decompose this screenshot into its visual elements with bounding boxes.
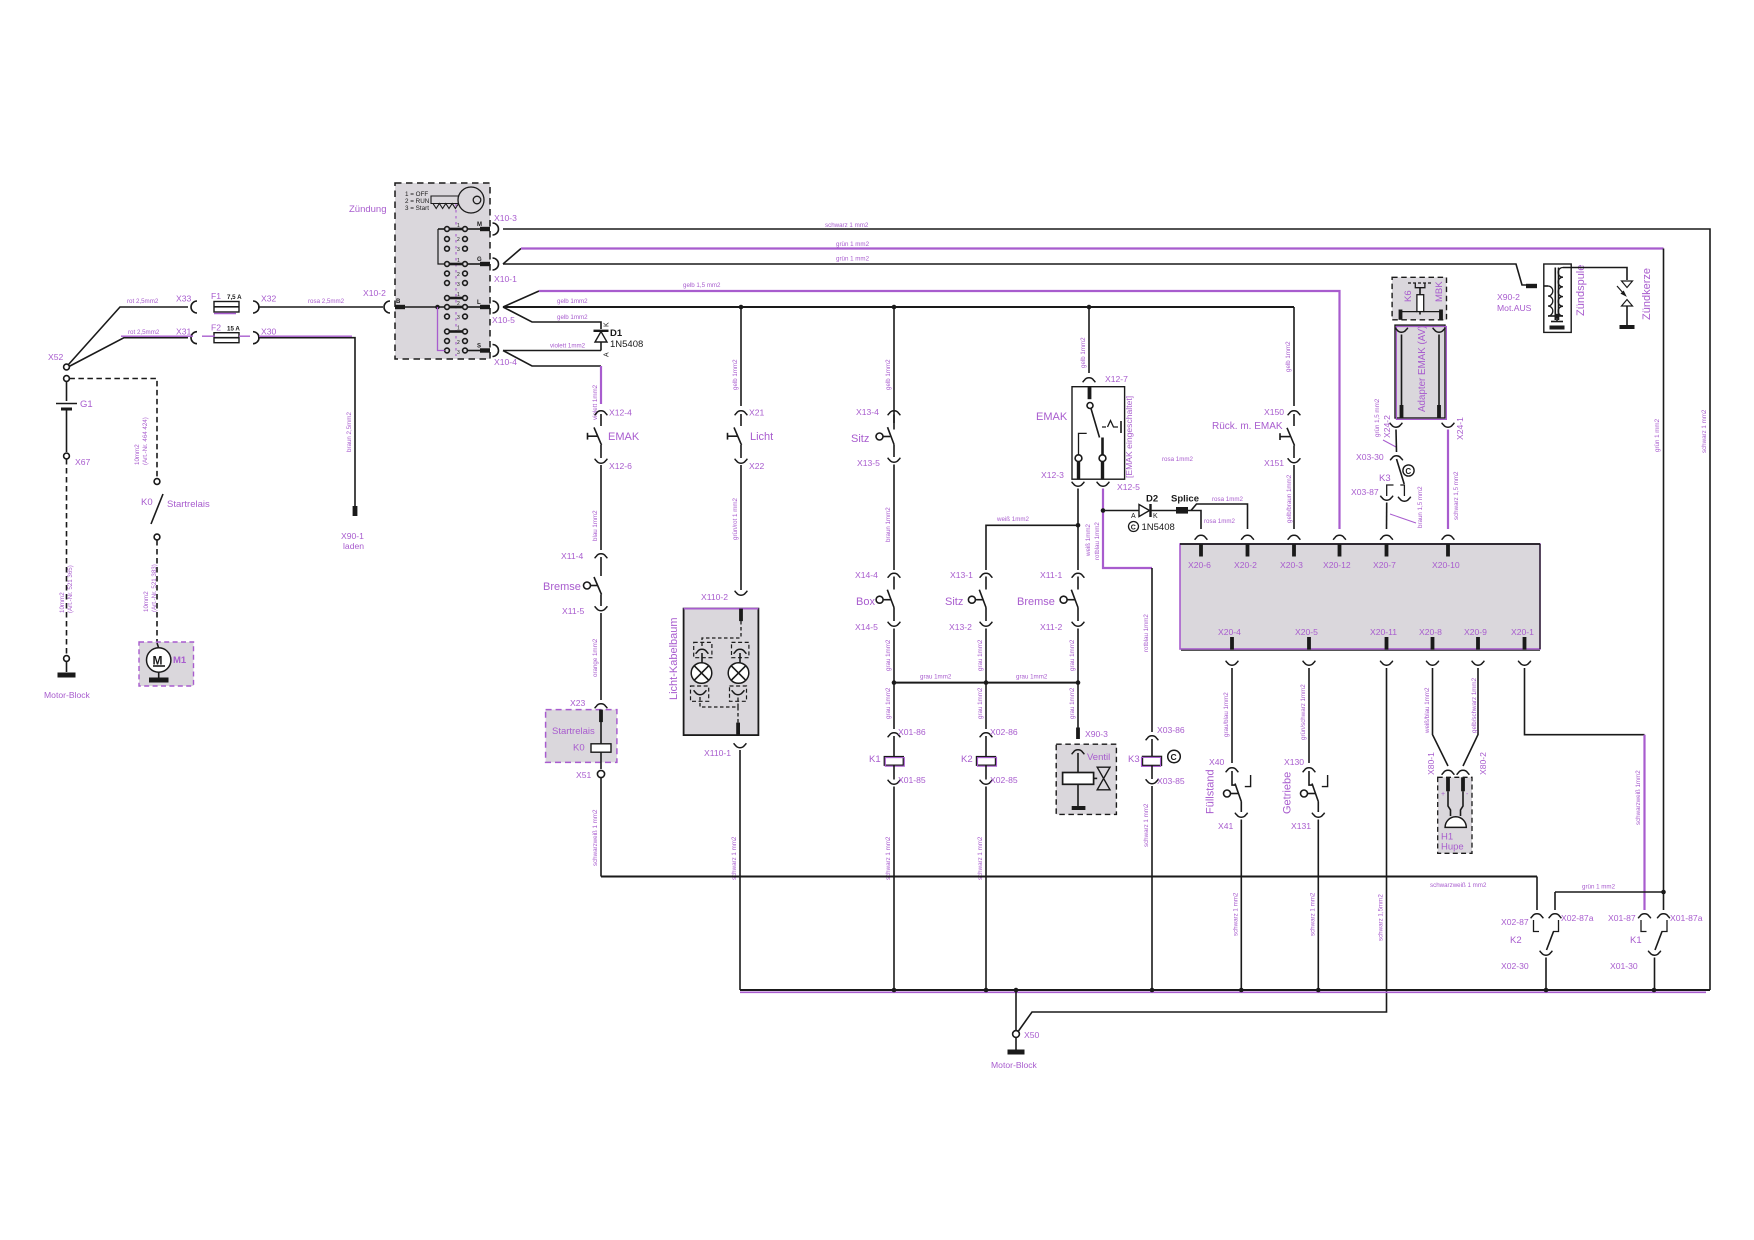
lamp box lower dashed wiring [700, 697, 740, 735]
connector X01-87a [1657, 913, 1703, 932]
wire gelb 1mm2 down to X13-4 [885, 307, 894, 423]
svg-text:Rück. m. EMAK: Rück. m. EMAK [1212, 421, 1283, 432]
svg-text:grün 1 mm2: grün 1 mm2 [1582, 884, 1616, 891]
svg-text:X40: X40 [1209, 757, 1225, 767]
wire rosa 1mm2 splice to X20-6 [1188, 511, 1236, 530]
svg-text:1: 1 [457, 258, 460, 264]
wire grau 1mm2 down [977, 629, 986, 683]
svg-text:X13-2: X13-2 [949, 622, 972, 632]
connector X13-1 [950, 570, 992, 580]
wire schwarzweiss bus down to X02-87 [1536, 877, 1538, 911]
wire braun 1,5 mm2 to X20-7 [1387, 486, 1425, 529]
svg-text:X13-4: X13-4 [856, 407, 879, 417]
connector X110-1 [704, 743, 746, 758]
svg-text:X12-7: X12-7 [1105, 374, 1128, 384]
svg-text:laden: laden [343, 541, 364, 551]
connector X10-4 [493, 345, 518, 368]
svg-text:braun 1mm2: braun 1mm2 [885, 507, 892, 542]
svg-text:rosa 1mm2: rosa 1mm2 [1212, 496, 1244, 503]
wire grau 1mm2 to X90-3 [1069, 683, 1078, 728]
svg-text:1N5408: 1N5408 [1142, 522, 1175, 533]
svg-text:MBK: MBK [1434, 281, 1445, 302]
wire rotblau 1mm2 down to X03-86 [1143, 568, 1152, 732]
connector X10-2 [363, 288, 390, 313]
lamp connector squares upper [694, 642, 749, 657]
connector X02-87a [1549, 913, 1594, 932]
svg-text:G1: G1 [80, 399, 93, 410]
connector X14-5 [855, 622, 900, 632]
svg-text:K0: K0 [573, 743, 585, 754]
svg-text:orange 1mm2: orange 1mm2 [592, 638, 599, 677]
connector X11-5 [562, 606, 607, 616]
svg-text:X24-2: X24-2 [1382, 415, 1392, 438]
switch Sitz (main) [945, 577, 986, 622]
wire gelb 1mm2 to D1 [503, 307, 601, 329]
svg-text:X31: X31 [176, 327, 192, 337]
horn H1 Hupe [1438, 777, 1472, 853]
connector X12-4 [595, 408, 632, 418]
svg-text:schwarz 1 mm2: schwarz 1 mm2 [1232, 892, 1239, 936]
wire schwarz 1,5 mm2 purple X24-1 to X20-10 [1448, 430, 1460, 530]
svg-text:EMAK: EMAK [608, 431, 640, 443]
svg-text:rotblau 1mm2: rotblau 1mm2 [1143, 614, 1150, 652]
svg-text:blau 1mm2: blau 1mm2 [592, 510, 599, 541]
wire schwarz 1 mm2 X131 to ground bus [1309, 820, 1318, 991]
svg-text:grau/blau 1mm2: grau/blau 1mm2 [1223, 692, 1230, 737]
svg-text:10mm2: 10mm2 [134, 444, 141, 465]
svg-text:K2: K2 [961, 754, 973, 765]
connector X20-8 [1419, 627, 1442, 665]
svg-text:X90-3: X90-3 [1085, 729, 1108, 739]
spark plug Zuendkerze [1617, 268, 1653, 329]
svg-text:gelb 1mm2: gelb 1mm2 [557, 314, 588, 321]
svg-text:X151: X151 [1264, 458, 1284, 468]
svg-text:K: K [604, 322, 611, 327]
connector X12-5 [1097, 482, 1140, 492]
svg-text:M1: M1 [173, 655, 187, 666]
connector X33 [176, 294, 197, 314]
node X52 [48, 352, 69, 381]
svg-text:X11-1: X11-1 [1040, 570, 1063, 580]
svg-text:Startrelais: Startrelais [167, 499, 210, 510]
connector X20-9 [1464, 627, 1487, 665]
connector X10-5 [492, 301, 515, 325]
wire schwarz 1 mm2 from X110-1 to ground bus [731, 750, 740, 990]
connector X110-2 [701, 591, 747, 602]
svg-text:weiß 1mm2: weiß 1mm2 [996, 516, 1030, 523]
wire schwarz 1 mm2 K1 to ground bus [885, 787, 894, 991]
svg-text:X10-4: X10-4 [494, 357, 517, 367]
svg-text:grau 1mm2: grau 1mm2 [920, 674, 952, 681]
svg-text:X130: X130 [1284, 757, 1304, 767]
svg-text:X32: X32 [261, 294, 277, 304]
svg-text:grün 1 mm2: grün 1 mm2 [1654, 418, 1661, 452]
connector X13-4 [856, 407, 900, 417]
svg-text:X20-9: X20-9 [1464, 627, 1487, 637]
svg-text:A: A [604, 352, 611, 357]
svg-text:rotblau 1mm2: rotblau 1mm2 [1094, 522, 1101, 560]
connector X11-1 [1040, 570, 1084, 580]
contact group L [445, 292, 468, 321]
connector X30 [253, 327, 277, 344]
connector X01-85 [888, 775, 926, 785]
svg-text:X10-3: X10-3 [494, 213, 517, 223]
svg-text:gelb 1mm2: gelb 1mm2 [557, 298, 588, 305]
svg-text:2: 2 [457, 301, 460, 307]
connector X20-12 [1323, 535, 1351, 570]
ground Motor-Block left [44, 656, 91, 700]
lamp E2 [728, 653, 749, 683]
ignition coil Zuendspule [1544, 264, 1587, 332]
wire gelbschwarz 1mm2 X20-9 to X80-2 [1463, 668, 1478, 766]
connector X12-7 [1083, 374, 1128, 384]
svg-text:rosa 1mm2: rosa 1mm2 [1204, 518, 1236, 525]
connector X150 [1264, 407, 1300, 417]
svg-text:Licht-Kabelbaum: Licht-Kabelbaum [668, 617, 680, 700]
svg-text:X03-87: X03-87 [1351, 487, 1379, 497]
svg-text:Mot.AUS: Mot.AUS [1497, 303, 1532, 313]
connector X10-3 [493, 213, 518, 235]
svg-text:Splice: Splice [1171, 494, 1199, 505]
wire gruen 1 mm2 purple (G bus) [503, 241, 1664, 264]
svg-text:[EMAK eingeschaltet]: [EMAK eingeschaltet] [1124, 396, 1134, 478]
connector X22 [735, 459, 765, 471]
wire coil secondary to spark plug [1563, 268, 1627, 281]
svg-text:X13-1: X13-1 [950, 570, 973, 580]
wire gruen 1 mm2 black (G to Zuendspule) [503, 256, 1526, 286]
svg-text:schwarz 1 mm2: schwarz 1 mm2 [1701, 409, 1708, 453]
svg-text:K2: K2 [1510, 935, 1522, 946]
svg-text:schwarzweiß 1mm2: schwarzweiß 1mm2 [1635, 770, 1642, 825]
wire rosa 1mm2 splice to X20-2 [1191, 496, 1248, 529]
svg-text:X11-5: X11-5 [562, 606, 585, 616]
svg-text:X20-2: X20-2 [1234, 560, 1257, 570]
connector X24-1 [1442, 417, 1465, 440]
svg-text:X110-2: X110-2 [701, 592, 728, 602]
diode D2 with splice [1103, 494, 1199, 534]
battery G1 [56, 382, 93, 453]
svg-text:X12-4: X12-4 [609, 408, 632, 418]
svg-text:gelb 1mm2: gelb 1mm2 [732, 359, 739, 390]
svg-text:X20-1: X20-1 [1511, 627, 1534, 637]
svg-text:X90-2: X90-2 [1497, 292, 1520, 302]
connector block X20 [1180, 544, 1540, 650]
svg-text:7,5 A: 7,5 A [227, 294, 242, 301]
connector X20-6 [1188, 535, 1211, 570]
svg-text:gelb 1mm2: gelb 1mm2 [885, 359, 892, 390]
svg-text:10mm2: 10mm2 [143, 591, 150, 612]
wire grau 1mm2 down to bus [1069, 629, 1078, 683]
terminal X90-3 [1076, 728, 1108, 740]
wire schwarzweiss 1 mm2 down from X51 [592, 778, 601, 877]
connector X20-7 [1373, 535, 1396, 570]
svg-text:X12-3: X12-3 [1041, 470, 1064, 480]
connector X40 [1209, 757, 1238, 772]
svg-text:X150: X150 [1264, 407, 1284, 417]
wire X20-1 to K1-87 (schwarzweiss 1mm2 purple) [1525, 668, 1645, 910]
wire weissblau 1mm2 X20-8 to X80-1 [1424, 668, 1448, 766]
wire rot 2,5mm2 to F2 row [69, 329, 188, 367]
svg-text:K3: K3 [1128, 754, 1140, 765]
svg-text:K1: K1 [869, 754, 881, 765]
wire gruen 1 mm2 right vertical [1654, 249, 1664, 911]
lamp connector squares lower [691, 686, 747, 701]
svg-text:schwarz 1 mm2: schwarz 1 mm2 [1309, 892, 1316, 936]
relay coil K3 [1128, 739, 1180, 779]
wire gruenschwarz 1mm2 X20-5 down [1300, 668, 1309, 763]
pin B wire and junction [395, 299, 445, 351]
wire graublau 1mm2 X20-4 down [1223, 668, 1232, 763]
wire grau 1mm2 to K1 coil [885, 683, 894, 729]
svg-text:3 = Start: 3 = Start [405, 205, 429, 212]
svg-text:weiß 1mm2: weiß 1mm2 [1085, 523, 1092, 557]
ignition switch box S1 [349, 183, 490, 359]
wire violett 1mm2 (S to D1 anode) [503, 343, 601, 351]
svg-text:X51: X51 [576, 770, 592, 780]
svg-text:D1: D1 [610, 328, 623, 339]
relay coil K1 [869, 736, 904, 780]
connector X01-86 [888, 727, 926, 737]
connector X14-4 [855, 570, 900, 580]
svg-text:X20-11: X20-11 [1370, 627, 1397, 637]
svg-text:grau 1mm2: grau 1mm2 [1016, 674, 1048, 681]
wire braun 1mm2 [885, 465, 894, 571]
switch Rueck. m. EMAK [1212, 414, 1295, 458]
svg-text:grün/schwarz 1mm2: grün/schwarz 1mm2 [1300, 684, 1307, 740]
svg-text:schwarz 1,5 mm2: schwarz 1,5 mm2 [1453, 471, 1460, 520]
connector X21 [735, 408, 765, 418]
switch Getriebe [1282, 771, 1328, 814]
svg-text:1N5408: 1N5408 [610, 339, 643, 350]
svg-text:X10-1: X10-1 [494, 274, 517, 284]
connector X13-2 [949, 622, 992, 632]
fuse F1 7,5 A [211, 291, 242, 314]
connector X11-2 [1040, 622, 1084, 632]
svg-text:10mm2: 10mm2 [59, 592, 66, 613]
pin G [467, 257, 490, 266]
svg-text:Adapter EMAK (AV): Adapter EMAK (AV) [1417, 326, 1428, 412]
svg-text:braun 1,5 mm2: braun 1,5 mm2 [1417, 486, 1424, 528]
svg-text:grün/rot 1 mm2: grün/rot 1 mm2 [732, 497, 739, 540]
svg-text:rosa 1mm2: rosa 1mm2 [1162, 456, 1194, 463]
svg-text:X20-7: X20-7 [1373, 560, 1396, 570]
svg-text:C: C [1405, 467, 1411, 476]
svg-text:EMAK: EMAK [1036, 411, 1068, 423]
svg-text:grau 1mm2: grau 1mm2 [977, 687, 984, 719]
svg-text:gelb/braun 1mm2: gelb/braun 1mm2 [1286, 474, 1293, 523]
wire rosa 2,5mm2 [258, 298, 383, 307]
connector X131 [1291, 813, 1325, 831]
svg-text:3: 3 [457, 247, 460, 253]
svg-text:2: 2 [457, 340, 460, 346]
contact group M (rows 1-3) [445, 223, 468, 253]
svg-text:Motor-Block: Motor-Block [44, 690, 91, 700]
svg-text:D2: D2 [1146, 494, 1158, 505]
svg-text:schwarzweiß 1 mm2: schwarzweiß 1 mm2 [592, 809, 599, 866]
connector X130 [1284, 757, 1315, 772]
svg-text:2 = RUN: 2 = RUN [405, 198, 430, 205]
svg-text:X20-4: X20-4 [1218, 627, 1241, 637]
pin M [467, 222, 490, 231]
svg-text:X03-85: X03-85 [1157, 776, 1185, 786]
connector X80-1 [1426, 752, 1454, 775]
connector X03-86 [1146, 725, 1185, 740]
connector X20-3 [1280, 535, 1303, 570]
svg-text:Zündung: Zündung [349, 204, 387, 215]
wire schwarz 1 mm2 X41 to ground bus [1232, 820, 1241, 991]
connector X20-11 [1370, 627, 1397, 665]
relay contact K1 [1630, 932, 1662, 951]
svg-text:gelb 1mm2: gelb 1mm2 [1080, 337, 1087, 368]
wire weiss 1mm2 branch to X13-1 [986, 516, 1078, 570]
pin L [467, 300, 490, 309]
svg-text:schwarz 1 mm2: schwarz 1 mm2 [825, 222, 869, 229]
wire 10mm2 (Art.-Nr. 521 383) dashed [143, 540, 158, 643]
svg-text:F1: F1 [211, 291, 221, 301]
wire gelb 1,5 mm2 purple (L to X20-12) [503, 282, 1340, 529]
wire schwarz 1 mm2 (M to right edge) [503, 222, 1710, 990]
svg-text:grün 1 mm2: grün 1 mm2 [836, 241, 870, 248]
svg-text:K0: K0 [141, 497, 153, 508]
wire gelb 1mm2 down to X21 [732, 307, 741, 406]
lamp harness box Licht-Kabelbaum [668, 609, 758, 736]
svg-text:X80-2: X80-2 [1478, 752, 1488, 775]
connector X31 [176, 327, 197, 344]
svg-text:X41: X41 [1218, 821, 1234, 831]
switch Fuellstand [1205, 769, 1251, 814]
svg-text:schwarz 1,5mm2: schwarz 1,5mm2 [1378, 894, 1385, 941]
wire X24-2 to X03-30 [1395, 430, 1398, 453]
svg-text:rot 2,5mm2: rot 2,5mm2 [127, 298, 159, 305]
svg-text:X67: X67 [75, 457, 91, 467]
svg-text:grau 1mm2: grau 1mm2 [885, 639, 892, 671]
wire gelbbraun 1mm2 to X20-3 [1286, 465, 1294, 529]
pin S [467, 344, 490, 353]
svg-text:1 = OFF: 1 = OFF [405, 191, 428, 198]
grau 1mm2 bus [892, 674, 1081, 685]
svg-text:Sitz: Sitz [851, 433, 869, 445]
svg-text:grün 1 mm2: grün 1 mm2 [836, 256, 870, 263]
svg-text:X90-1: X90-1 [341, 531, 364, 541]
svg-text:3: 3 [457, 282, 460, 288]
svg-text:X52: X52 [48, 352, 64, 362]
svg-text:(Art.-Nr. 521 383): (Art.-Nr. 521 383) [151, 564, 158, 612]
svg-text:Zündspule: Zündspule [1575, 265, 1587, 316]
svg-text:Getriebe: Getriebe [1282, 772, 1294, 814]
svg-text:schwarzweiß 1 mm2: schwarzweiß 1 mm2 [1430, 882, 1487, 889]
svg-text:3: 3 [457, 350, 460, 356]
svg-text:gelb/schwarz 1mm2: gelb/schwarz 1mm2 [1471, 677, 1478, 733]
connector X20-1 [1511, 627, 1534, 665]
connector X151 [1264, 458, 1300, 468]
svg-text:X110-1: X110-1 [704, 748, 731, 758]
svg-text:X20-10: X20-10 [1432, 560, 1460, 570]
svg-text:3: 3 [457, 315, 460, 321]
connector X10-1 [493, 258, 518, 284]
svg-text:X80-1: X80-1 [1426, 752, 1436, 775]
wire gelb 1mm2 main bus (L) [503, 298, 1294, 309]
svg-text:X20-6: X20-6 [1188, 560, 1211, 570]
svg-text:weiß/blau 1mm2: weiß/blau 1mm2 [1424, 687, 1431, 734]
svg-text:grau 1mm2: grau 1mm2 [1069, 687, 1076, 719]
connector X03-85 [1146, 776, 1185, 786]
svg-text:Zündkerze: Zündkerze [1641, 268, 1653, 320]
svg-text:X12-6: X12-6 [609, 461, 632, 471]
svg-text:grün 1,5 mm2: grün 1,5 mm2 [1374, 398, 1381, 437]
svg-text:X11-4: X11-4 [561, 551, 584, 561]
terminal X90-1 laden [341, 506, 364, 551]
label gruen 1,5 mm2 with leader [1374, 398, 1396, 447]
fuse F2 15 A [211, 323, 240, 343]
svg-text:2: 2 [457, 272, 460, 278]
wire violett 1mm2 (S down to X12-4) [503, 351, 601, 421]
svg-text:schwarz 1 mm2: schwarz 1 mm2 [1143, 803, 1150, 847]
svg-text:Motor-Block: Motor-Block [991, 1060, 1038, 1070]
key icon [405, 187, 484, 356]
svg-text:X33: X33 [176, 294, 192, 304]
svg-text:X11-2: X11-2 [1040, 622, 1063, 632]
svg-text:X01-30: X01-30 [1610, 961, 1638, 971]
svg-text:Sitz: Sitz [945, 596, 963, 608]
svg-text:Startrelais: Startrelais [552, 726, 595, 737]
svg-text:X20-3: X20-3 [1280, 560, 1303, 570]
svg-text:X01-86: X01-86 [898, 727, 926, 737]
relay contact K2 [1510, 932, 1554, 951]
svg-text:Bremse: Bremse [543, 581, 581, 593]
svg-text:braun 2,5mm2: braun 2,5mm2 [346, 412, 353, 452]
connector X12-3 [1041, 470, 1084, 486]
svg-text:schwarz 1 mm2: schwarz 1 mm2 [977, 836, 984, 880]
wire rot 2,5mm2 to F1 row [69, 298, 189, 365]
connector X03-87 [1351, 487, 1411, 501]
svg-text:X02-30: X02-30 [1501, 961, 1529, 971]
main ground bus schwarz [740, 988, 1710, 993]
svg-text:Hupe: Hupe [1441, 842, 1464, 853]
lamp E1 [691, 653, 712, 683]
svg-text:X22: X22 [749, 461, 765, 471]
svg-text:Füllstand: Füllstand [1205, 769, 1217, 814]
svg-text:15 A: 15 A [227, 326, 240, 333]
svg-text:(Art.-Nr. 464 424): (Art.-Nr. 464 424) [142, 417, 149, 465]
terminal X90-2 Mot.AUS [1497, 284, 1537, 313]
connector X02-85 [980, 775, 1018, 785]
connector X01-30 [1610, 951, 1661, 990]
connector X02-87 [1501, 914, 1543, 932]
svg-text:X23: X23 [570, 698, 586, 708]
connector X20-4 [1218, 627, 1241, 665]
wire schwarz 1 mm2 K2 to ground bus [977, 787, 986, 991]
relay contact K3 [1379, 459, 1414, 496]
switch Box [856, 577, 894, 622]
svg-text:X20-12: X20-12 [1323, 560, 1351, 570]
svg-text:gelb 1,5 mm2: gelb 1,5 mm2 [683, 282, 721, 289]
switch Sitz (upper) [851, 415, 894, 458]
svg-text:X03-30: X03-30 [1356, 452, 1384, 462]
svg-text:Box: Box [856, 596, 875, 608]
svg-text:X01-87: X01-87 [1608, 913, 1636, 923]
svg-text:C: C [1171, 752, 1177, 762]
contact group S [445, 326, 468, 357]
wire gelb 1mm2 down to X150 [1285, 307, 1294, 406]
svg-text:X10-5: X10-5 [492, 315, 515, 325]
bracket M-G groups [438, 228, 445, 230]
valve Y1 Ventil [1056, 744, 1116, 814]
wire dashed X52 to K0 [69, 379, 157, 479]
svg-text:grau 1mm2: grau 1mm2 [977, 639, 984, 671]
switch Bremse (brake, left chain) [543, 557, 602, 606]
svg-text:Licht: Licht [750, 431, 773, 443]
wire blau 1mm2 [592, 465, 601, 550]
